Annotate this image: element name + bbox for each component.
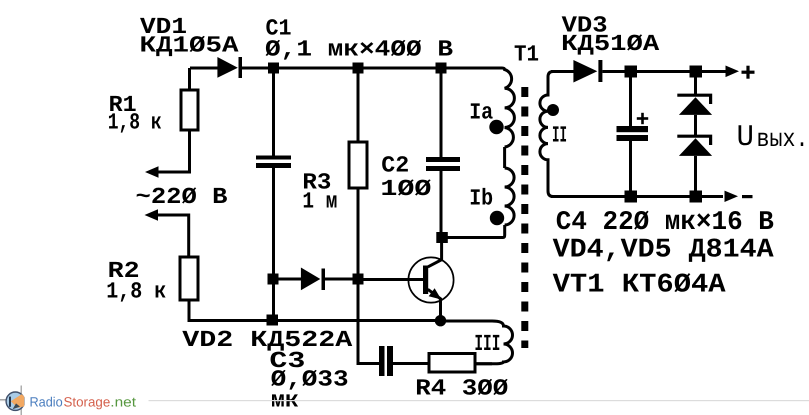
wire top rail left after VD1	[242, 67, 502, 70]
wire bottom rail	[188, 319, 442, 322]
wire C1 column upper	[272, 73, 275, 156]
winding Ia	[502, 68, 514, 147]
svg-text:Т1: Т1	[514, 42, 539, 68]
node bottom rail C1 column	[267, 315, 279, 326]
wire bottom right rail	[551, 195, 723, 198]
zener VD4	[677, 95, 712, 115]
resistor R1	[181, 90, 198, 130]
svg-text:R4 3ØØ: R4 3ØØ	[415, 376, 508, 402]
winding Ib	[505, 168, 515, 225]
svg-text:1ØØ: 1ØØ	[380, 176, 431, 202]
wire between zeners	[694, 115, 697, 135]
capacitor C2	[426, 157, 460, 171]
winding III	[475, 321, 513, 364]
wire zener column upper	[694, 78, 697, 96]
svg-text:U: U	[737, 121, 755, 155]
svg-text:Ia: Ia	[469, 100, 493, 126]
svg-text:~22Ø В: ~22Ø В	[136, 184, 228, 210]
wire emitter rail to winding III	[446, 320, 492, 323]
wire R3 column upper	[357, 73, 360, 142]
svg-text:1 м: 1 м	[302, 189, 337, 215]
logo backing	[25, 393, 149, 411]
diode VD3	[573, 60, 602, 83]
wire base node down to C3	[358, 285, 379, 364]
svg-text:С4 22Ø мк×16 В: С4 22Ø мк×16 В	[556, 208, 774, 238]
node VD2 cathode base node	[353, 274, 364, 285]
node C4 bottom	[625, 191, 638, 203]
zener VD5	[677, 136, 712, 156]
AC input arrow top	[145, 166, 159, 178]
wire C4 column lower	[629, 141, 632, 191]
plus mark C4	[637, 113, 648, 124]
plus sign output	[742, 66, 755, 79]
winding II with leads	[540, 72, 553, 197]
minus sign output	[742, 195, 753, 198]
logo crosshair	[0, 386, 26, 415]
polarity dot winding Ib	[490, 211, 504, 225]
wire R3 column lower	[357, 188, 360, 274]
svg-text:Ib: Ib	[469, 186, 493, 212]
AC input arrow bottom	[145, 209, 159, 220]
wire AC bottom to R2	[158, 215, 189, 257]
svg-text:КД51ØА: КД51ØА	[561, 31, 659, 57]
wire C2 column lower	[440, 171, 443, 233]
node collector	[436, 232, 448, 243]
output arrow minus	[725, 191, 739, 202]
svg-text:VT1 КТ6Ø4А: VT1 КТ6Ø4А	[553, 271, 727, 301]
wire top right rail after VD3	[602, 70, 726, 73]
node VD5 bottom	[690, 191, 703, 203]
resistor R2	[180, 257, 198, 300]
wire C4 column upper	[629, 78, 632, 127]
svg-text:II: II	[552, 123, 567, 149]
wire base	[364, 278, 424, 281]
wire VD2 anode lead	[278, 278, 301, 281]
svg-text:1,8 к: 1,8 к	[106, 279, 166, 305]
polarity dot winding II	[547, 104, 559, 116]
logo icon transistor circle	[6, 392, 24, 410]
transistor VT1	[408, 243, 453, 316]
page divider line	[0, 400, 809, 401]
svg-text:1,8 к: 1,8 к	[108, 110, 162, 136]
svg-text:.net: .net	[110, 395, 136, 410]
svg-text:КД1Ø5А: КД1Ø5А	[140, 33, 239, 59]
node C1 top	[268, 63, 279, 74]
wire zener column lower	[694, 156, 697, 191]
svg-text:Radio: Radio	[30, 395, 63, 410]
diode VD1	[217, 57, 242, 78]
capacitor C3	[379, 346, 393, 376]
resistor R4	[429, 354, 475, 373]
wire VD2 cathode lead	[325, 278, 353, 281]
capacitor C4	[617, 126, 649, 141]
wire R2 to bottom rail	[188, 300, 191, 321]
wire C2 column upper	[440, 73, 443, 157]
wire VD1 anode down to R1	[188, 68, 191, 90]
resistor R3	[349, 142, 367, 188]
text Uout label	[737, 121, 809, 155]
svg-text:VD2 КД522А: VD2 КД522А	[182, 327, 352, 353]
transformer core	[521, 87, 528, 348]
node emitter	[435, 315, 446, 326]
svg-text:III: III	[474, 331, 500, 357]
node C2 top	[436, 63, 447, 74]
diode VD2	[301, 268, 325, 291]
node R3 top	[353, 63, 364, 74]
svg-text:Storage: Storage	[64, 395, 111, 410]
capacitor C1	[256, 156, 291, 169]
svg-text:VD4,VD5 Д814А: VD4,VD5 Д814А	[553, 236, 775, 266]
node C4 top	[625, 66, 638, 78]
wire top right rail before VD3	[551, 70, 574, 73]
svg-text:C2: C2	[381, 153, 409, 179]
wire R1 to AC top	[158, 130, 190, 172]
wire collector node to winding Ib	[447, 225, 505, 238]
svg-text:Ø,1 мк×4ØØ В: Ø,1 мк×4ØØ В	[265, 37, 453, 63]
wire top rail left before VD1	[190, 67, 218, 70]
output arrow plus	[726, 66, 740, 78]
svg-text:вых.: вых.	[757, 125, 809, 154]
polarity dot winding Ia	[489, 120, 503, 134]
wire C1 column lower	[272, 168, 275, 315]
node VD2 anode	[268, 274, 279, 285]
node VD4 top	[690, 66, 703, 78]
wire between Ia and Ib	[503, 147, 506, 168]
wire C3 to R4	[393, 362, 429, 365]
wire R4 to winding III	[475, 362, 492, 365]
